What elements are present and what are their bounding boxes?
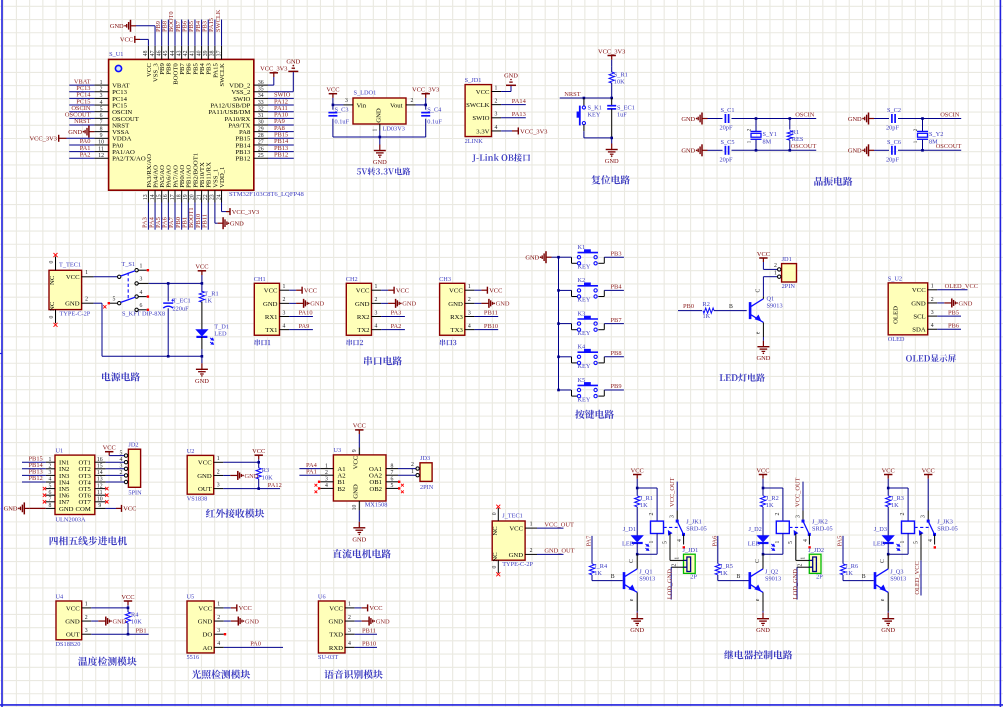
bus junction bbox=[557, 289, 560, 292]
svg-text:CH2: CH2 bbox=[346, 276, 358, 283]
svg-text:VCC: VCC bbox=[123, 506, 136, 513]
pin 1 (VCC) bbox=[345, 607, 355, 609]
svg-text:C: C bbox=[880, 559, 886, 563]
U1 pin 9 (COM) bbox=[95, 507, 106, 509]
driver U3 MX1508 body bbox=[333, 455, 386, 501]
svg-text:4: 4 bbox=[928, 539, 934, 542]
svg-text:PB7: PB7 bbox=[611, 317, 623, 324]
U1 pin 8 (GND) bbox=[46, 507, 55, 509]
MCU pin 18 (PB0/AO) bbox=[181, 190, 183, 202]
U3 pin 6 (OB1) bbox=[386, 481, 398, 483]
svg-text:GND: GND bbox=[352, 536, 366, 543]
svg-text:S9013: S9013 bbox=[765, 575, 781, 582]
connector T_TEC1 TYPE-C-2P body bbox=[49, 270, 82, 309]
svg-text:1: 1 bbox=[675, 557, 681, 560]
svg-text:GND: GND bbox=[681, 148, 695, 155]
wire / net PB0 bbox=[181, 203, 183, 230]
relay pin 5 (NC) bbox=[794, 531, 797, 535]
U3 pin 10 (GND) bottom bbox=[358, 501, 360, 510]
svg-text:J_D3: J_D3 bbox=[874, 526, 887, 533]
svg-text:OSCOUT: OSCOUT bbox=[936, 143, 962, 150]
svg-text:VCC: VCC bbox=[396, 288, 409, 295]
svg-text:1: 1 bbox=[649, 540, 655, 543]
svg-text:VCC: VCC bbox=[509, 526, 523, 533]
svg-text:3: 3 bbox=[495, 112, 498, 118]
key K1 bbox=[571, 257, 573, 263]
svg-text:4: 4 bbox=[677, 539, 683, 542]
svg-text:2: 2 bbox=[325, 470, 328, 476]
resistor J_R6 1K bbox=[840, 564, 845, 575]
no-connect marker bbox=[43, 487, 46, 490]
svg-text:T_TEC1: T_TEC1 bbox=[59, 262, 81, 269]
svg-text:1: 1 bbox=[325, 463, 328, 469]
svg-text:2: 2 bbox=[798, 563, 804, 566]
svg-text:B: B bbox=[729, 304, 733, 310]
svg-text:PA12: PA12 bbox=[268, 482, 282, 489]
wire / net PB7 bbox=[604, 323, 624, 325]
wire / net PC13 bbox=[69, 91, 94, 93]
svg-text:1: 1 bbox=[217, 602, 220, 608]
pin 4 (SDA) bbox=[928, 328, 938, 330]
svg-text:4: 4 bbox=[375, 323, 378, 329]
title stepper motor bbox=[50, 536, 127, 545]
svg-text:1K: 1K bbox=[891, 502, 899, 509]
svg-text:PB10: PB10 bbox=[484, 323, 498, 330]
svg-text:36: 36 bbox=[258, 80, 264, 86]
MCU pin 44 (BOOT0) bbox=[174, 46, 176, 60]
svg-text:OSCOUT: OSCOUT bbox=[791, 143, 817, 150]
svg-text:24: 24 bbox=[216, 194, 222, 200]
svg-text:0: 0 bbox=[492, 565, 498, 568]
JD2 pin 5 bbox=[124, 454, 127, 457]
pin 1 (GND) bbox=[379, 124, 381, 131]
connector U4 bbox=[56, 601, 82, 640]
wire / net PC14 bbox=[69, 97, 94, 99]
no-connect marker bbox=[398, 487, 400, 489]
pin 3 (TXD) bbox=[345, 633, 355, 635]
svg-text:PB0: PB0 bbox=[683, 303, 694, 310]
wire / net PA6 bbox=[167, 203, 169, 230]
U1 pin 14 (OT3) bbox=[95, 474, 106, 476]
MCU pin 9 (VDDA) bbox=[94, 137, 108, 139]
svg-text:3: 3 bbox=[468, 310, 471, 316]
wire / net PA4 bbox=[154, 203, 156, 230]
MCU pin 19 (PB1/AO) bbox=[187, 190, 189, 202]
pin 0 top (no connect) bbox=[55, 257, 57, 271]
title DC motor bbox=[333, 549, 391, 558]
MCU pin 8 (VSSA) bbox=[94, 131, 108, 133]
pin 2 (GND) bbox=[345, 620, 355, 622]
svg-text:J_Q3: J_Q3 bbox=[890, 568, 903, 575]
wire / net PA3 bbox=[381, 316, 405, 318]
svg-text:220uF: 220uF bbox=[173, 305, 190, 312]
svg-text:R3: R3 bbox=[262, 467, 269, 474]
svg-text:2: 2 bbox=[774, 263, 777, 269]
svg-text:STM32F103C8T6_LQFP48: STM32F103C8T6_LQFP48 bbox=[229, 191, 304, 198]
svg-text:9: 9 bbox=[352, 449, 358, 452]
wire / net PB3 bbox=[604, 256, 624, 258]
svg-text:NC: NC bbox=[492, 552, 499, 562]
pin 3 (SCL) bbox=[928, 315, 938, 317]
svg-text:10: 10 bbox=[98, 140, 104, 146]
power VCC at CH3 pin1 bbox=[474, 289, 481, 291]
capacitor S_C5 20pF bbox=[708, 149, 723, 151]
MCU pin 3 (PC14) bbox=[94, 97, 108, 99]
svg-text:GND: GND bbox=[376, 108, 383, 123]
sheet border bbox=[1, 0, 3, 707]
capacitor S_C3 0.1uF bbox=[332, 105, 334, 110]
svg-text:SWCLK: SWCLK bbox=[219, 63, 226, 87]
emitter wire to ground bbox=[762, 322, 764, 337]
no-connect marker bbox=[43, 500, 46, 503]
svg-text:3: 3 bbox=[375, 310, 378, 316]
svg-text:VCC_3V3: VCC_3V3 bbox=[520, 128, 547, 135]
svg-text:TX1: TX1 bbox=[265, 327, 277, 334]
U1 pin 5 (IN5) bbox=[46, 488, 55, 490]
svg-text:3: 3 bbox=[348, 628, 351, 634]
svg-text:GND: GND bbox=[230, 221, 244, 228]
wire to key K5 bbox=[559, 389, 572, 391]
svg-text:2: 2 bbox=[468, 297, 471, 303]
resistor R4 10K bbox=[127, 608, 129, 612]
MCU pin 45 (PB8) bbox=[167, 46, 169, 60]
net VCC_OUT (rotated) bbox=[676, 482, 678, 511]
svg-text:T_EC1: T_EC1 bbox=[173, 297, 191, 304]
no-connect marker OT6 bbox=[105, 494, 108, 497]
svg-text:NRST: NRST bbox=[564, 91, 580, 98]
wire / net PA1 bbox=[69, 151, 94, 153]
svg-text:7: 7 bbox=[391, 470, 394, 476]
MCU pin 22 (PB11/RX) bbox=[207, 190, 209, 202]
wire / net PB10 bbox=[474, 329, 498, 331]
title power circuit bbox=[102, 372, 140, 381]
driver U1 ULN2003A body bbox=[55, 455, 95, 514]
svg-text:28: 28 bbox=[258, 133, 264, 139]
svg-text:4: 4 bbox=[468, 323, 471, 329]
svg-text:26: 26 bbox=[258, 146, 264, 152]
svg-text:31: 31 bbox=[258, 113, 264, 119]
pin 2 (GND) bbox=[372, 302, 382, 304]
svg-text:19: 19 bbox=[183, 194, 189, 200]
svg-text:LD03V3: LD03V3 bbox=[383, 126, 405, 133]
collector wire bbox=[762, 554, 764, 569]
svg-text:T_D1: T_D1 bbox=[214, 323, 229, 330]
svg-text:43: 43 bbox=[176, 50, 182, 56]
svg-text:34: 34 bbox=[258, 93, 264, 99]
svg-text:e: e bbox=[756, 331, 762, 334]
svg-text:PB9: PB9 bbox=[611, 383, 622, 390]
wire / net PA10 bbox=[289, 316, 313, 318]
svg-text:17: 17 bbox=[170, 194, 176, 200]
svg-text:3.3V: 3.3V bbox=[476, 128, 489, 135]
pin 0 bottom (no connect) bbox=[497, 560, 499, 573]
MCU pin 39 (PB3) bbox=[207, 46, 209, 60]
svg-text:LOD_GND: LOD_GND bbox=[666, 569, 673, 600]
svg-text:1: 1 bbox=[373, 128, 379, 131]
svg-text:1: 1 bbox=[530, 522, 533, 528]
svg-text:S_U1: S_U1 bbox=[109, 51, 123, 58]
svg-text:GND: GND bbox=[113, 618, 127, 625]
svg-text:S_Y1: S_Y1 bbox=[763, 131, 777, 138]
wire / net PA11 bbox=[268, 111, 294, 113]
MCU pin 30 (PA9/TX) bbox=[254, 124, 268, 126]
ground at CH2 pin2 bbox=[381, 302, 388, 304]
svg-text:S9013: S9013 bbox=[639, 575, 655, 582]
svg-text:OB2: OB2 bbox=[369, 486, 382, 493]
svg-text:PB6: PB6 bbox=[948, 322, 959, 329]
svg-text:6: 6 bbox=[49, 490, 52, 496]
wire OT3 to JD2 bbox=[106, 474, 125, 476]
MCU pin 7 (NRST) bbox=[94, 124, 108, 126]
svg-text:K1: K1 bbox=[578, 244, 586, 251]
svg-text:C: C bbox=[756, 288, 762, 292]
pin 2 (GND) bbox=[82, 302, 94, 304]
svg-text:1: 1 bbox=[747, 140, 753, 143]
ground at pin2 bbox=[355, 620, 362, 622]
svg-text:TX2: TX2 bbox=[357, 327, 369, 334]
collector wire bbox=[636, 554, 638, 569]
svg-text:4: 4 bbox=[348, 641, 351, 647]
wire / net PB8 bbox=[604, 356, 624, 358]
svg-text:S_R1: S_R1 bbox=[614, 72, 628, 79]
relay common pin 3 bbox=[676, 511, 678, 522]
svg-text:9: 9 bbox=[98, 503, 101, 509]
svg-text:B: B bbox=[737, 574, 741, 580]
pin 3 (OUT) bbox=[214, 488, 224, 490]
svg-text:PA9: PA9 bbox=[299, 323, 310, 330]
svg-text:VCC: VCC bbox=[356, 288, 370, 295]
MCU pin 1 (VBAT) bbox=[94, 84, 108, 86]
wire / net PB15 bbox=[22, 461, 46, 463]
relay armature bbox=[677, 521, 683, 534]
pin 4 (TX2) bbox=[372, 329, 382, 331]
svg-text:23: 23 bbox=[210, 194, 216, 200]
MCU pin 17 (PA7/AO) bbox=[174, 190, 176, 202]
U1 pin 10 (OT7) bbox=[95, 501, 106, 503]
pin 3 (RX1) bbox=[280, 316, 290, 318]
svg-text:3: 3 bbox=[670, 515, 676, 518]
svg-text:10K: 10K bbox=[131, 619, 142, 626]
svg-text:3: 3 bbox=[85, 628, 88, 634]
U3 pin 1 (A1) bbox=[320, 468, 333, 470]
svg-text:RX2: RX2 bbox=[357, 314, 370, 321]
svg-text:OLED: OLED bbox=[888, 336, 905, 343]
capacitor S_EC1 1uF bbox=[611, 98, 613, 106]
svg-text:VCC: VCC bbox=[631, 467, 644, 474]
wire / net PB6 bbox=[937, 328, 961, 330]
svg-text:16: 16 bbox=[163, 194, 169, 200]
connector S_U2 bbox=[888, 283, 928, 335]
MCU pin 21 (PB10/TX) bbox=[201, 190, 203, 202]
svg-text:1: 1 bbox=[900, 540, 906, 543]
svg-text:0.1uF: 0.1uF bbox=[335, 119, 350, 126]
svg-text:DS18B20: DS18B20 bbox=[56, 641, 81, 648]
wire / net PB11 bbox=[474, 316, 498, 318]
power VCC_3V3 at MCU pin VDDA bbox=[67, 137, 95, 139]
wire / net OLED_VCC bbox=[937, 289, 967, 291]
power VCC (relay 2) bbox=[762, 475, 764, 479]
base wire bbox=[592, 580, 623, 582]
U1 pin 7 (IN7) bbox=[46, 501, 55, 503]
wire / net PA8 bbox=[268, 131, 294, 133]
svg-text:U3: U3 bbox=[333, 447, 341, 454]
svg-text:J_D2: J_D2 bbox=[749, 526, 762, 533]
svg-text:0.1uF: 0.1uF bbox=[427, 119, 442, 126]
svg-text:PA2/TX/AO: PA2/TX/AO bbox=[112, 156, 146, 163]
svg-text:4: 4 bbox=[140, 290, 143, 296]
title light module bbox=[192, 670, 250, 679]
svg-text:16: 16 bbox=[97, 457, 103, 463]
svg-text:VCC_3V3: VCC_3V3 bbox=[260, 66, 287, 73]
svg-text:5: 5 bbox=[391, 483, 394, 489]
svg-text:PA3: PA3 bbox=[391, 310, 402, 317]
svg-text:1: 1 bbox=[348, 602, 351, 608]
MCU pin 20 (PB2/BOOT1) bbox=[194, 190, 196, 202]
svg-text:S_C1: S_C1 bbox=[721, 107, 735, 114]
svg-text:TYPE-C-2P: TYPE-C-2P bbox=[60, 310, 91, 317]
svg-text:30: 30 bbox=[258, 120, 264, 126]
MCU pin 14 (PA4/AO) bbox=[154, 190, 156, 202]
MCU pin 24 (VDD_1) bbox=[221, 190, 223, 202]
svg-text:14: 14 bbox=[150, 194, 156, 200]
ground at pin2 bbox=[223, 474, 230, 476]
power VCC (relay 3) bbox=[887, 475, 889, 479]
svg-text:U1: U1 bbox=[56, 447, 64, 454]
wire / net PA12 bbox=[223, 488, 280, 490]
svg-text:1: 1 bbox=[100, 80, 103, 86]
key K5 bbox=[571, 390, 573, 396]
svg-text:J_Q1: J_Q1 bbox=[639, 568, 652, 575]
title 5V to 3.3V bbox=[357, 168, 411, 176]
JD2 pin 4 bbox=[124, 461, 127, 464]
svg-text:J_R3: J_R3 bbox=[891, 495, 904, 502]
svg-text:35: 35 bbox=[258, 86, 264, 92]
svg-text:2: 2 bbox=[411, 98, 414, 104]
MCU pin 11 (PA1/AO) bbox=[94, 151, 108, 153]
svg-text:1: 1 bbox=[85, 602, 88, 608]
ground rail wire bbox=[333, 136, 426, 138]
svg-text:3: 3 bbox=[217, 628, 220, 634]
pin 1 (VCC) bbox=[280, 289, 290, 291]
title temperature module bbox=[78, 657, 136, 666]
collector wire bbox=[887, 554, 889, 569]
svg-text:JD3: JD3 bbox=[420, 455, 430, 462]
svg-text:S_C3: S_C3 bbox=[335, 106, 349, 113]
svg-text:PB10: PB10 bbox=[362, 641, 376, 648]
svg-text:VCC: VCC bbox=[326, 87, 339, 94]
svg-text:VCC: VCC bbox=[912, 287, 926, 294]
wire / net PA0 bbox=[69, 144, 94, 146]
switch pin 4 stub bbox=[138, 296, 146, 298]
relay pin 4 (NO) bbox=[934, 534, 936, 544]
svg-text:1K: 1K bbox=[640, 502, 648, 509]
net VCC_OUT (rotated) bbox=[802, 482, 804, 511]
bus junction bbox=[557, 322, 560, 325]
emitter wire bbox=[887, 592, 889, 611]
power VCC to JD2 pin5 bbox=[108, 452, 110, 456]
svg-text:15: 15 bbox=[97, 464, 103, 470]
resistor T_R1 1K bbox=[201, 283, 203, 292]
wire / net PB12 bbox=[268, 157, 294, 159]
svg-text:5: 5 bbox=[788, 541, 794, 544]
MCU pin 10 (PA0) bbox=[94, 144, 108, 146]
svg-text:NRST: NRST bbox=[74, 118, 90, 125]
relay common pin 3 bbox=[927, 511, 929, 522]
relay coil J_JK1 bbox=[637, 487, 657, 489]
wire / net PB15 bbox=[268, 137, 294, 139]
relay link dashed bbox=[915, 526, 929, 528]
svg-text:2PIN: 2PIN bbox=[782, 283, 796, 290]
wire / net PB4 bbox=[604, 289, 624, 291]
svg-text:OSCIN: OSCIN bbox=[795, 111, 815, 118]
pin 1 (VCC) bbox=[214, 461, 224, 463]
wire / net PA0 bbox=[224, 646, 283, 648]
wire to key K3 bbox=[559, 323, 572, 325]
wire / net PA9 bbox=[289, 329, 313, 331]
svg-text:4: 4 bbox=[325, 483, 328, 489]
svg-text:2PIN: 2PIN bbox=[420, 484, 434, 491]
power VCC bbox=[358, 430, 360, 434]
wire / net VBAT bbox=[69, 84, 94, 86]
MCU pin 15 (PA5/AO) bbox=[161, 190, 163, 202]
net OLED_VCC (rotated) bbox=[920, 560, 922, 595]
svg-text:Vin: Vin bbox=[357, 102, 367, 109]
svg-text:VCC: VCC bbox=[329, 605, 343, 612]
pin 1 (VCC) bbox=[492, 91, 502, 93]
svg-text:GND: GND bbox=[195, 378, 209, 385]
svg-text:J_R2: J_R2 bbox=[766, 495, 779, 502]
no-connect marker bbox=[318, 481, 320, 483]
U3 pin 9 (VCC) top bbox=[358, 448, 360, 455]
svg-text:2: 2 bbox=[217, 469, 220, 475]
ground at CH1 pin2 bbox=[289, 302, 296, 304]
svg-text:4: 4 bbox=[283, 323, 286, 329]
svg-text:ULN2003A: ULN2003A bbox=[56, 517, 87, 524]
wire / net PB10 bbox=[201, 203, 203, 230]
svg-text:25: 25 bbox=[258, 153, 264, 159]
svg-text:GND: GND bbox=[681, 116, 695, 123]
relay link dashed bbox=[664, 526, 678, 528]
svg-text:GND: GND bbox=[496, 301, 510, 308]
crystal S_Y1 8M bbox=[755, 117, 758, 120]
svg-text:VCC: VCC bbox=[252, 448, 265, 455]
U1 pin 12 (OT5) bbox=[95, 488, 106, 490]
svg-text:4: 4 bbox=[803, 539, 809, 542]
svg-text:PB8: PB8 bbox=[611, 350, 622, 357]
svg-text:32: 32 bbox=[258, 106, 264, 112]
wire Vout to VCC_3V3 bbox=[416, 104, 426, 106]
MCU pin 6 (OSCOUT) bbox=[94, 117, 108, 119]
wire / net PB10 bbox=[355, 646, 377, 648]
MCU pin 42 (PB6) bbox=[187, 46, 189, 60]
svg-text:TX3: TX3 bbox=[451, 327, 464, 334]
wire / net NRST bbox=[69, 124, 94, 126]
wire VCC to JD1 pin2 bbox=[763, 268, 777, 270]
pin3 DO dangling bbox=[224, 633, 226, 635]
svg-text:GND: GND bbox=[286, 58, 300, 65]
relay pin 4 (NO) bbox=[683, 534, 685, 544]
MCU pin 33 (PA12/USB/DP) bbox=[254, 104, 268, 106]
svg-text:2: 2 bbox=[747, 128, 753, 131]
title IR receiver bbox=[206, 509, 264, 518]
svg-text:VCC: VCC bbox=[198, 460, 212, 467]
svg-text:Q1: Q1 bbox=[767, 296, 775, 303]
ground (bottom cap) bbox=[869, 149, 875, 151]
svg-text:OLED_VCC: OLED_VCC bbox=[914, 561, 921, 594]
svg-text:RX3: RX3 bbox=[450, 314, 463, 321]
capacitor T_EC1 220uF bbox=[167, 283, 169, 301]
wire / net BOOT0 bbox=[174, 20, 176, 46]
